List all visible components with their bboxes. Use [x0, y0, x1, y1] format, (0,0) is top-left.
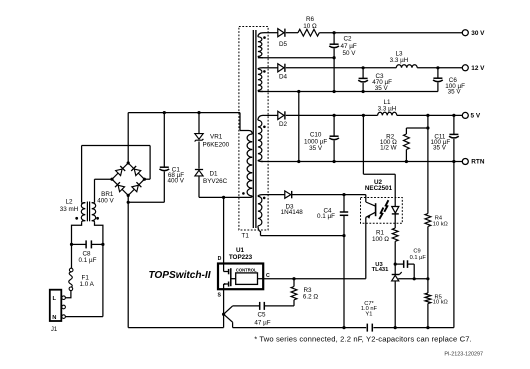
svg-text:0.1 µF: 0.1 µF: [410, 255, 427, 261]
svg-text:3.3 µH: 3.3 µH: [390, 57, 409, 64]
svg-text:BYV26C: BYV26C: [203, 178, 228, 185]
svg-text:NEC2501: NEC2501: [365, 185, 393, 192]
svg-text:35 V: 35 V: [433, 144, 447, 151]
svg-text:47 µF: 47 µF: [254, 319, 270, 326]
svg-text:T1: T1: [242, 233, 250, 240]
svg-text:L2: L2: [65, 199, 73, 206]
svg-text:D4: D4: [279, 73, 288, 80]
svg-text:D2: D2: [279, 121, 288, 128]
svg-text:D: D: [218, 256, 222, 262]
svg-text:C5: C5: [257, 312, 266, 319]
svg-text:N: N: [52, 315, 56, 321]
svg-text:10 Ω: 10 Ω: [303, 23, 317, 30]
svg-text:U1: U1: [236, 247, 245, 254]
svg-text:12 V: 12 V: [471, 65, 485, 72]
svg-text:TL431: TL431: [372, 267, 390, 273]
svg-text:50 V: 50 V: [343, 50, 357, 57]
svg-text:PI-2123-120297: PI-2123-120297: [444, 351, 483, 357]
svg-text:D1: D1: [210, 170, 219, 177]
svg-text:1/2 W: 1/2 W: [380, 144, 397, 151]
svg-text:35 V: 35 V: [309, 145, 323, 152]
svg-text:100 Ω: 100 Ω: [372, 236, 389, 243]
svg-text:5 V: 5 V: [471, 113, 481, 120]
svg-text:400 V: 400 V: [168, 177, 185, 184]
svg-text:P6KE200: P6KE200: [203, 141, 230, 148]
svg-text:C9: C9: [413, 249, 420, 255]
svg-text:33 mH: 33 mH: [60, 206, 79, 213]
svg-text:30 V: 30 V: [471, 30, 485, 37]
svg-text:L: L: [53, 296, 57, 302]
svg-text:3.3 µH: 3.3 µH: [378, 105, 397, 112]
svg-text:6.2 Ω: 6.2 Ω: [303, 293, 319, 300]
svg-text:10 kΩ: 10 kΩ: [433, 299, 448, 305]
svg-text:* Two series connected, 2.2 nF: * Two series connected, 2.2 nF, Y2-capac…: [254, 334, 472, 343]
svg-text:35 V: 35 V: [448, 89, 462, 96]
svg-text:C: C: [266, 273, 270, 279]
svg-text:1.0 A: 1.0 A: [80, 281, 95, 288]
svg-text:C2: C2: [344, 36, 353, 43]
svg-text:10 kΩ: 10 kΩ: [433, 221, 448, 227]
svg-text:S: S: [217, 293, 221, 299]
svg-text:TOP223: TOP223: [229, 254, 253, 261]
svg-text:J1: J1: [51, 327, 58, 333]
svg-text:RTN: RTN: [471, 159, 485, 166]
svg-text:400 V: 400 V: [97, 198, 114, 205]
svg-text:47 µF: 47 µF: [341, 43, 357, 50]
svg-text:Y1: Y1: [365, 311, 372, 317]
svg-text:TOPSwitch-II: TOPSwitch-II: [148, 270, 210, 281]
svg-text:D5: D5: [279, 41, 288, 48]
svg-text:0.1 µF: 0.1 µF: [317, 213, 335, 220]
svg-text:CONTROL: CONTROL: [236, 267, 257, 272]
svg-text:VR1: VR1: [210, 134, 223, 141]
svg-text:1N4148: 1N4148: [281, 209, 304, 216]
svg-text:0.1 µF: 0.1 µF: [79, 257, 97, 264]
